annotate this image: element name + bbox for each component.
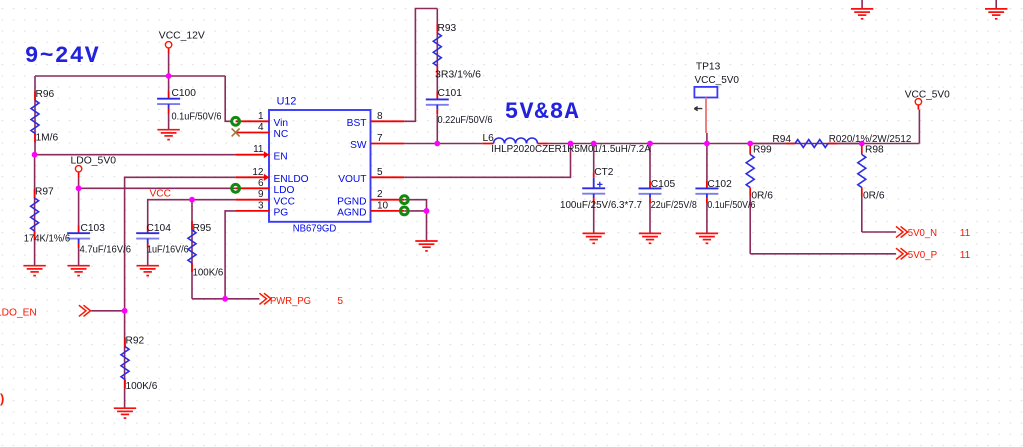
- svg-text:U12: U12: [277, 95, 297, 107]
- wire VCC_5V0 rail after L6: [549, 143, 920, 145]
- svg-text:3: 3: [258, 200, 264, 211]
- pin 6 LDO (left): [236, 187, 269, 189]
- wire ENLDO net down: [125, 177, 236, 310]
- svg-text:0.1uF/50V/6: 0.1uF/50V/6: [707, 200, 755, 211]
- pin 12 input arrow: [264, 174, 269, 181]
- TP13 small arrow: [694, 107, 702, 111]
- wire VCC_12V top rail horizontal: [35, 75, 225, 77]
- ground C104: [137, 266, 159, 276]
- svg-text:C105: C105: [651, 179, 676, 190]
- svg-text:4.7uF/16V/6: 4.7uF/16V/6: [80, 245, 132, 256]
- junction VOUT sense: [568, 141, 574, 147]
- svg-text:): ): [0, 391, 4, 406]
- pin stub VCC_5V0 port: [917, 105, 919, 109]
- svg-text:0.1uF/50V/6: 0.1uF/50V/6: [172, 112, 222, 123]
- junction R98: [859, 141, 865, 147]
- wire C101 to SW junction: [436, 114, 438, 143]
- svg-text:6: 6: [258, 178, 264, 189]
- capacitor C101: [436, 92, 438, 100]
- pin 1 Vin (left): [236, 120, 269, 122]
- pin 2 PGND (right): [371, 199, 405, 201]
- svg-text:PWR_PG: PWR_PG: [270, 296, 311, 307]
- svg-text:100uF/25V/6.3*7.7: 100uF/25V/6.3*7.7: [560, 200, 642, 211]
- svg-text:100K/6: 100K/6: [126, 381, 158, 392]
- svg-text:NC: NC: [274, 129, 289, 140]
- ground C105: [639, 233, 661, 243]
- wire 5V0_P horizontal: [750, 253, 896, 255]
- power port VCC_5V0: [915, 99, 921, 105]
- capacitor C102: [706, 181, 708, 189]
- svg-text:Vin: Vin: [274, 118, 289, 129]
- wire rail R99 junction to R94: [750, 143, 786, 145]
- no-ERC marker pin6: [232, 184, 240, 192]
- wire R96 branch vertical: [34, 76, 36, 155]
- junction VCC R95: [189, 197, 195, 203]
- pin stub LDO_5V0 port: [78, 172, 80, 177]
- svg-text:174K/1%/6: 174K/1%/6: [24, 234, 71, 245]
- svg-text:R98: R98: [865, 145, 884, 156]
- svg-text:C104: C104: [147, 223, 172, 234]
- svg-text:0R/6: 0R/6: [751, 191, 773, 202]
- wire VCC_12V port to rail: [168, 53, 170, 76]
- capacitor C103: [78, 225, 80, 233]
- svg-text:5V0_N: 5V0_N: [908, 228, 937, 239]
- junction AGND: [424, 208, 430, 214]
- wire VOUT sense up to rail: [404, 144, 570, 178]
- svg-text:1M/6: 1M/6: [36, 133, 59, 144]
- pin stub VCC_12V port: [168, 48, 170, 53]
- resistor R95: [191, 221, 193, 230]
- wire PWR_PG horizontal: [192, 298, 259, 300]
- svg-text:10: 10: [377, 200, 389, 211]
- wire PG pin down to PWR_PG: [225, 211, 236, 299]
- wire LDO_5V0 port stub: [78, 177, 80, 188]
- svg-text:R92: R92: [126, 336, 145, 347]
- svg-text:100K/6: 100K/6: [193, 268, 224, 279]
- wire BST up to R93 top: [404, 9, 437, 122]
- wire C102 to ground: [706, 203, 708, 233]
- ground AGND: [415, 241, 437, 251]
- capacitor C105: [649, 181, 651, 189]
- resistor R92: [124, 338, 126, 347]
- svg-text:5: 5: [377, 167, 383, 178]
- pin 10 AGND (right): [371, 210, 405, 212]
- wire 5V0_N horizontal: [862, 231, 896, 233]
- wire VCC_5V0 port drop: [918, 110, 920, 144]
- svg-text:1: 1: [258, 111, 264, 122]
- wire CT2 to ground: [593, 203, 595, 233]
- svg-text:LDO_EN: LDO_EN: [0, 307, 37, 318]
- junction R99: [747, 141, 753, 147]
- resistor R99: [749, 146, 751, 155]
- junction C105: [647, 141, 653, 147]
- svg-text:EN: EN: [274, 151, 288, 162]
- pin 12 ENLDO (left): [236, 176, 269, 178]
- wire C102 top lead: [706, 144, 708, 181]
- op-amp U12 NB679GD body: [269, 110, 371, 222]
- svg-text:R93: R93: [438, 23, 457, 34]
- sheet port LDO_EN chevron: [79, 305, 91, 316]
- svg-text:11: 11: [960, 228, 971, 239]
- power port LDO_5V0: [75, 166, 81, 172]
- svg-text:SW: SW: [350, 140, 367, 151]
- junction CT2: [591, 141, 597, 147]
- ground R97: [23, 266, 45, 276]
- wire R99 bottom to 5V0_P: [749, 197, 751, 254]
- svg-text:11: 11: [253, 144, 264, 155]
- wire TP13 to rail: [706, 133, 708, 144]
- svg-text:C101: C101: [438, 88, 463, 99]
- svg-text:2: 2: [377, 189, 383, 200]
- ground top right 1: [851, 9, 873, 19]
- svg-text:ENLDO: ENLDO: [274, 174, 309, 185]
- svg-text:R95: R95: [193, 223, 212, 234]
- wire C105 top lead: [649, 144, 651, 181]
- wire C100 top lead: [168, 76, 170, 91]
- junction VCC_12V rail: [166, 73, 172, 79]
- resistor R96: [34, 91, 36, 100]
- wire AGND to junction: [404, 210, 426, 212]
- wire R92 branch vertical to ground: [124, 311, 126, 408]
- wire C104 to ground: [147, 248, 149, 266]
- sheet port 5V0_P chevron: [896, 248, 908, 259]
- pin 5 VOUT (right): [371, 176, 405, 178]
- junction LDO_5V0: [76, 185, 82, 191]
- no-ERC marker AGND: [400, 207, 408, 215]
- svg-text:VCC_5V0: VCC_5V0: [905, 90, 950, 101]
- wire LDO_EN to junction: [91, 310, 124, 312]
- wire VCC net to C104: [148, 200, 236, 226]
- capacitor C104: [147, 225, 149, 233]
- no-connect X pin4 NC: [232, 128, 240, 136]
- wire C105 to ground: [649, 203, 651, 233]
- pin 11 EN (left): [236, 154, 269, 156]
- svg-text:VOUT: VOUT: [338, 174, 366, 185]
- wire SW to inductor L6: [404, 143, 482, 145]
- CT2 plus sign: [597, 182, 602, 187]
- wire LDO_5V0 to LDO pin: [79, 187, 236, 189]
- pin 7 SW (right): [371, 143, 405, 145]
- sheet port PWR_PG chevron: [259, 293, 271, 304]
- capacitor CT2: [593, 178, 595, 188]
- resistor R93: [436, 24, 438, 33]
- wire CT2 top lead: [593, 144, 595, 173]
- sheet port 5V0_N chevron: [896, 226, 908, 237]
- wire C103 branch vertical: [78, 188, 80, 225]
- svg-text:R94: R94: [772, 134, 791, 145]
- svg-text:5: 5: [337, 296, 343, 307]
- svg-text:LDO: LDO: [274, 185, 295, 196]
- pin 9 VCC (left): [236, 199, 269, 201]
- svg-text:R020/1%/2W/2512: R020/1%/2W/2512: [829, 134, 912, 145]
- svg-text:LDO_5V0: LDO_5V0: [71, 155, 117, 166]
- resistor R97: [34, 189, 36, 198]
- wire R97 branch vertical to ground: [34, 155, 36, 266]
- wire top ground 2 stub: [995, 0, 997, 9]
- ground C100: [157, 130, 179, 140]
- capacitor C100: [168, 91, 170, 99]
- test point TP13: [694, 87, 717, 98]
- svg-text:11: 11: [960, 250, 971, 261]
- wire EN net horizontal: [35, 154, 236, 156]
- junction LDO_EN: [122, 308, 128, 314]
- ground top right 2: [985, 9, 1007, 19]
- svg-text:R99: R99: [753, 145, 772, 156]
- svg-text:C103: C103: [81, 223, 106, 234]
- svg-text:4: 4: [258, 122, 264, 133]
- svg-text:PGND: PGND: [337, 196, 366, 207]
- wire R98 bottom to 5V0_N: [861, 197, 863, 233]
- svg-text:C100: C100: [172, 88, 197, 99]
- svg-text:0R/6: 0R/6: [863, 191, 885, 202]
- svg-text:7: 7: [377, 133, 383, 144]
- junction EN divider: [32, 152, 38, 158]
- svg-text:VCC_12V: VCC_12V: [159, 31, 205, 42]
- pin 4 NC (left): [236, 132, 269, 134]
- svg-text:R96: R96: [36, 89, 55, 100]
- no-ERC marker PGND: [400, 196, 408, 204]
- svg-text:12: 12: [252, 167, 264, 178]
- svg-text:0.22uF/50V/6: 0.22uF/50V/6: [438, 115, 493, 126]
- svg-text:5V0_P: 5V0_P: [908, 250, 937, 261]
- no-ERC marker pin1: [232, 117, 240, 125]
- svg-text:PG: PG: [274, 208, 289, 219]
- inductor L6: [482, 143, 493, 145]
- svg-text:TP13: TP13: [696, 62, 721, 73]
- ground R92: [114, 408, 136, 418]
- pin 11 input arrow: [264, 151, 269, 158]
- svg-text:AGND: AGND: [337, 208, 366, 219]
- svg-text:3R3/1%/6: 3R3/1%/6: [435, 70, 481, 81]
- svg-text:8: 8: [377, 111, 383, 122]
- wire C103 to ground: [78, 248, 80, 266]
- svg-text:VCC_5V0: VCC_5V0: [695, 75, 740, 86]
- wire R94 to R98 junction: [828, 143, 862, 145]
- svg-text:9: 9: [258, 189, 264, 200]
- pin 3 PG (left): [236, 210, 269, 212]
- ground C102: [696, 233, 718, 243]
- junction C101 SW: [434, 141, 440, 147]
- power port VCC_12V: [165, 42, 171, 48]
- svg-text:BST: BST: [347, 118, 367, 129]
- resistor R94: [786, 143, 795, 145]
- wire R95 branch vertical: [191, 200, 193, 299]
- svg-text:C102: C102: [707, 179, 732, 190]
- svg-text:22uF/25V/8: 22uF/25V/8: [651, 200, 697, 211]
- svg-text:9~24V: 9~24V: [25, 43, 100, 69]
- resistor R98: [861, 146, 863, 155]
- ground C103: [67, 266, 89, 276]
- pin 8 BST (right): [371, 120, 405, 122]
- svg-text:1uF/16V/6: 1uF/16V/6: [147, 245, 189, 256]
- ground CT2: [583, 233, 605, 243]
- wire rail down to Vin pin: [225, 76, 232, 121]
- svg-text:CT2: CT2: [594, 167, 614, 178]
- wire C100 bottom lead to ground: [168, 113, 170, 130]
- svg-text:NB679GD: NB679GD: [293, 224, 337, 235]
- wire top ground 1 stub: [861, 0, 863, 9]
- junction PWR_PG: [222, 296, 228, 302]
- wire PGND to ground: [404, 200, 426, 241]
- svg-text:5V&8A: 5V&8A: [505, 99, 580, 125]
- svg-text:VCC: VCC: [274, 196, 296, 207]
- junction C102 TP13: [704, 141, 710, 147]
- svg-text:R97: R97: [35, 187, 54, 198]
- svg-text:L6: L6: [483, 133, 495, 144]
- svg-text:VCC: VCC: [150, 189, 172, 200]
- wire R93 to C101 vertical: [436, 9, 438, 92]
